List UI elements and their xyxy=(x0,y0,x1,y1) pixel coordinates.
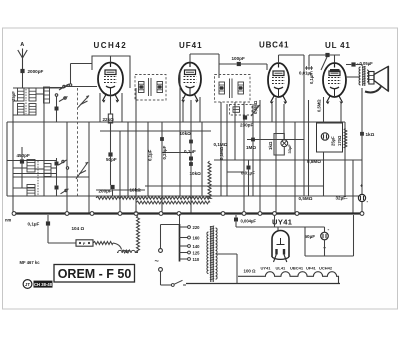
label nm xyxy=(5,218,12,223)
svg-text:170Ω: 170Ω xyxy=(337,135,342,146)
variable capacitor CV2 osc xyxy=(76,162,88,179)
wire osc coil links xyxy=(13,168,56,188)
svg-text:32µF-: 32µF- xyxy=(336,196,349,201)
wire rail y196 xyxy=(7,195,362,197)
capacitor 100pF xyxy=(232,56,245,66)
electrolytic 32uF xyxy=(336,184,369,212)
wire UF41 plate to top xyxy=(190,54,219,64)
wire UL41 top row xyxy=(309,55,340,70)
wire UCH42 grid cap box xyxy=(92,56,130,88)
node mains taps xyxy=(180,225,201,262)
wire mains plug xyxy=(155,225,180,286)
svg-text:UY41: UY41 xyxy=(272,218,292,227)
svg-text:104 Ω: 104 Ω xyxy=(72,226,85,231)
svg-text:50µF: 50µF xyxy=(305,234,316,239)
label MF 467 xyxy=(20,260,41,265)
svg-text:-: - xyxy=(328,227,330,233)
wire rail y177 xyxy=(13,176,89,178)
svg-text:1kΩ: 1kΩ xyxy=(366,132,375,137)
svg-text:+: + xyxy=(360,184,363,190)
coil L1 antenna transformer xyxy=(11,87,49,115)
resistor 1k xyxy=(360,132,375,137)
svg-text:2000pF: 2000pF xyxy=(28,69,44,74)
tube UCH42 xyxy=(94,41,128,103)
svg-text:450pF: 450pF xyxy=(17,153,30,158)
capacitor 0,01uF tone xyxy=(299,66,313,76)
wire heater wavy second xyxy=(136,201,210,204)
svg-text:- 0,05µF: - 0,05µF xyxy=(357,61,373,66)
svg-text:~: ~ xyxy=(155,257,160,266)
resistor 10k bottom xyxy=(130,188,142,193)
svg-text:UL41: UL41 xyxy=(276,266,287,271)
capacitor 0,1uF coupling (rotated) xyxy=(309,73,314,84)
antenna A xyxy=(18,42,27,69)
wire UCH42 cathode frame xyxy=(100,93,122,122)
IF transformer T1 (dashed) xyxy=(135,75,166,101)
resistor 10k UF41 screen xyxy=(180,131,193,144)
dashed tuning gang link xyxy=(77,88,79,196)
svg-text:125: 125 xyxy=(193,250,201,255)
wire y152 link xyxy=(162,152,191,154)
wire heater chain xyxy=(238,272,339,284)
title box OREM - F 50 xyxy=(54,265,135,283)
tube UBC41 xyxy=(259,41,289,105)
capacitor on UL41 grid line xyxy=(325,53,329,57)
svg-text:UL 41: UL 41 xyxy=(325,41,351,50)
svg-text:0,1µF: 0,1µF xyxy=(184,149,196,154)
wire heater wavy vertical x210 xyxy=(208,161,211,199)
svg-text:0,1MΩ: 0,1MΩ xyxy=(219,146,224,160)
wire antenna to coil xyxy=(13,73,64,88)
coil L2 oscillator xyxy=(27,160,51,197)
resistor/capacitor box UL41 cathode (25uF / 170 ohm) xyxy=(317,123,347,152)
svg-text:CH 38-48: CH 38-48 xyxy=(34,282,53,287)
svg-text:0,1µF: 0,1µF xyxy=(148,149,153,161)
svg-text:0,004µF: 0,004µF xyxy=(241,219,257,224)
svg-text:200pF: 200pF xyxy=(99,189,112,194)
resistor 10k lower xyxy=(189,162,201,176)
coil hum bucking xyxy=(117,250,138,252)
svg-text:0,1µF: 0,1µF xyxy=(28,222,40,227)
svg-text:0,5MΩ: 0,5MΩ xyxy=(317,99,322,112)
svg-text:0,25µF: 0,25µF xyxy=(162,145,167,159)
svg-text:220: 220 xyxy=(193,225,201,230)
capacitor 0,004uF xyxy=(234,215,278,231)
capacitor 230pF xyxy=(240,115,253,127)
wire secondary taps xyxy=(216,254,238,277)
logo JT xyxy=(23,280,53,289)
svg-text:100 Ω: 100 Ω xyxy=(244,269,257,274)
wire AVC rail y160 xyxy=(7,159,362,162)
resistor 0,1M xyxy=(214,142,228,160)
output transformer T3 xyxy=(359,66,369,86)
speaker LS xyxy=(369,66,389,92)
wire heater rail xyxy=(186,283,340,285)
svg-text:MF 467 kc: MF 467 kc xyxy=(20,260,41,265)
wire heater left drop xyxy=(236,276,238,283)
transformer T4 primary bar xyxy=(179,214,181,262)
wire speaker flexible lead xyxy=(365,87,381,93)
wire UL41 cathode leads xyxy=(323,97,325,196)
switch S1b osc xyxy=(59,160,69,194)
svg-text:10kΩ: 10kΩ xyxy=(190,171,202,176)
wire UBC41 plate top xyxy=(279,55,305,63)
variable capacitor CV1 xyxy=(78,96,89,108)
svg-text:160: 160 xyxy=(193,235,201,240)
resistor 0,5M xyxy=(299,196,313,201)
capacitor 2000pF xyxy=(20,69,43,74)
svg-text:OREM - F 50: OREM - F 50 xyxy=(58,267,132,281)
svg-text:UCH42: UCH42 xyxy=(319,266,333,271)
wire rail y139 xyxy=(247,139,304,141)
svg-text:10kΩ: 10kΩ xyxy=(180,131,192,136)
wire y190 link xyxy=(96,189,145,191)
svg-text:100pF: 100pF xyxy=(232,56,245,61)
svg-text:UF41: UF41 xyxy=(306,266,317,271)
label tube names xyxy=(261,266,333,271)
tube UL41 xyxy=(323,41,351,104)
tube UY41 xyxy=(272,218,292,263)
wire grid row xyxy=(64,64,97,87)
resistor 0,5M UL41 grid (rotated) xyxy=(317,99,322,112)
label heater resistor 100ohm xyxy=(244,269,257,274)
transformer T4 core and secondary xyxy=(207,226,217,282)
wire verticals right xyxy=(221,55,362,213)
svg-text:10kΩ: 10kΩ xyxy=(130,188,142,193)
electrolytic 50uF xyxy=(305,227,330,256)
capacitor 0,1uF mains xyxy=(28,215,51,243)
svg-text:UBC41: UBC41 xyxy=(290,266,304,271)
capacitor padder xyxy=(55,94,59,122)
wire heater wavy horizontal xyxy=(96,196,210,199)
svg-text:A: A xyxy=(20,42,24,48)
wire y186 link xyxy=(145,185,324,187)
wire heater wavy vertical x138 xyxy=(137,216,140,253)
IF transformer T2 (dashed) xyxy=(215,75,251,103)
switch S1 band xyxy=(59,84,72,102)
svg-text:UBC41: UBC41 xyxy=(259,41,289,50)
resistor 104 ohm label xyxy=(72,226,85,231)
svg-text:140: 140 xyxy=(193,244,201,249)
svg-text:JT: JT xyxy=(25,282,31,287)
fuse F xyxy=(48,240,93,246)
svg-text:1kΩ: 1kΩ xyxy=(268,141,273,150)
capacitor 200pF xyxy=(99,185,115,196)
node junctions on bus xyxy=(12,212,364,216)
svg-text:33µF: 33µF xyxy=(287,144,292,154)
capacitor padder osc xyxy=(55,158,59,196)
potentiometer 0,5M volume xyxy=(251,100,260,116)
svg-text:22kΩ: 22kΩ xyxy=(103,117,115,122)
capacitor 0,05uF output xyxy=(346,61,373,67)
svg-text:110: 110 xyxy=(193,257,200,262)
svg-text:UF41: UF41 xyxy=(179,41,203,50)
svg-text:0,1µF: 0,1µF xyxy=(309,73,314,84)
capacitor 0,01uF xyxy=(241,160,255,196)
wire UL41 plate to transformer xyxy=(346,65,362,78)
svg-text:230pF: 230pF xyxy=(240,123,253,128)
resistor 22k xyxy=(103,114,115,123)
wire tube bottom leads xyxy=(183,97,341,140)
wire chassis bus xyxy=(14,212,362,214)
wire y173 link xyxy=(13,173,57,175)
svg-text:50pF: 50pF xyxy=(106,157,117,162)
switch S2 mains xyxy=(171,280,186,286)
wire 100pF link xyxy=(219,64,267,78)
svg-text:UCH42: UCH42 xyxy=(94,41,128,50)
capacitor 0,1uF UF41 xyxy=(184,149,196,161)
wire HT rail y122 xyxy=(7,121,345,123)
capacitor 450pF xyxy=(17,147,30,188)
resistor second zigzag xyxy=(122,250,131,253)
wire cathode HT link xyxy=(275,215,354,256)
svg-text:0,5MΩ: 0,5MΩ xyxy=(299,196,313,201)
wire dip xyxy=(113,243,122,250)
resistor 0,8M xyxy=(307,159,321,164)
capacitor 0,25uF (rotated label) xyxy=(160,137,167,159)
svg-text:nm: nm xyxy=(5,218,12,223)
wire verticals left xyxy=(7,70,202,213)
tube UF41 xyxy=(179,41,203,103)
wire y131 rail xyxy=(100,130,211,132)
capacitor 50pF xyxy=(106,123,117,185)
resistor 1M xyxy=(246,138,256,150)
svg-text:1MΩ: 1MΩ xyxy=(246,145,256,150)
wire y172 link xyxy=(227,171,244,173)
wire coil connections xyxy=(13,88,64,214)
wire bus to wavy xyxy=(135,205,137,213)
svg-text:0,8MΩ: 0,8MΩ xyxy=(307,159,321,164)
coil detector (dashed box) xyxy=(230,105,253,116)
svg-text:0,1MΩ: 0,1MΩ xyxy=(214,142,228,147)
svg-text:25µF: 25µF xyxy=(331,136,336,146)
capacitor 0,1uF (rotated) xyxy=(148,149,153,161)
resistor heater dropper xyxy=(93,242,113,245)
resistor 1k + dial lamp xyxy=(268,134,292,156)
svg-text:UY41: UY41 xyxy=(261,266,272,271)
svg-text:25pF: 25pF xyxy=(11,91,16,101)
